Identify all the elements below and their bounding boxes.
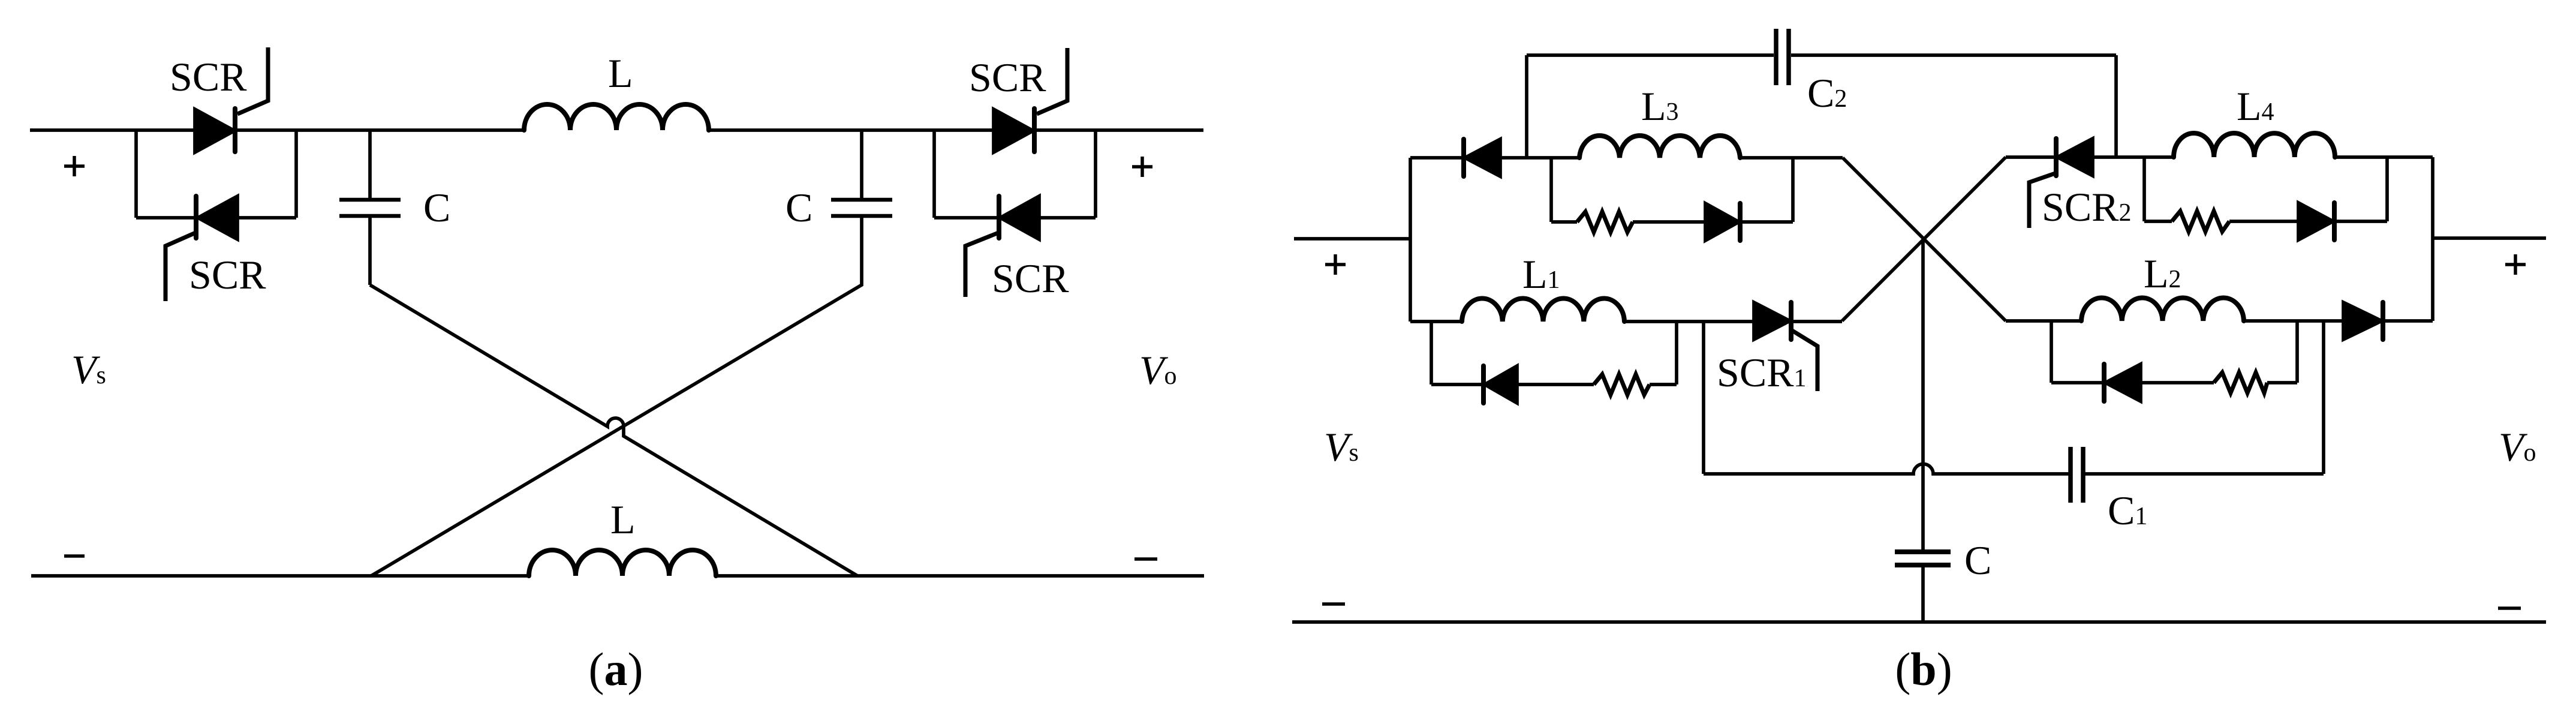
capacitor C right vertical lead top (a) bbox=[860, 130, 863, 200]
wire L1 lower block bottom branch (b) bbox=[1431, 383, 1677, 386]
inductor L1 (b) bbox=[1462, 299, 1624, 322]
SCR bottom-right (a) bbox=[965, 196, 1039, 297]
SCR1 (b) bbox=[1754, 302, 1817, 391]
label minus left (a) bbox=[64, 554, 85, 558]
svg-text:(a): (a) bbox=[589, 643, 643, 695]
label minus right (a) bbox=[1134, 557, 1157, 561]
inductor L bottom (a) bbox=[529, 550, 716, 576]
wire input rail (b) bbox=[1294, 237, 1410, 241]
svg-text:C: C bbox=[423, 185, 450, 230]
svg-text:C: C bbox=[786, 185, 812, 230]
wire L2 branch (b) bbox=[2006, 319, 2433, 323]
wire C1 line left with hop (b) bbox=[1704, 464, 2071, 474]
wire output rail (b) bbox=[2433, 236, 2546, 240]
wire diagonal from bottom-left to right capacitor with hop (a) bbox=[371, 216, 862, 576]
SCR2 pointing left (b) bbox=[2029, 139, 2093, 228]
wire left SCR bridge left vertical (a) bbox=[134, 130, 138, 218]
wire L4 top branch to bus (b) bbox=[2335, 155, 2433, 159]
svg-text:C: C bbox=[1964, 537, 1991, 583]
label plus right (a) bbox=[1132, 157, 1152, 177]
inductor L2 (b) bbox=[2081, 298, 2244, 321]
capacitor C left vertical lead top (a) bbox=[368, 130, 372, 200]
resistor in L3 block (b) bbox=[1577, 212, 1633, 232]
svg-text:SCR: SCR bbox=[992, 256, 1069, 301]
capacitor C right plates (a) bbox=[831, 200, 892, 216]
wire L3 block right vertical (b) bbox=[1791, 158, 1795, 222]
wire L3 top branch to diagonal (b) bbox=[1740, 156, 1843, 160]
inductor L3 (b) bbox=[1579, 136, 1740, 158]
inductor L4 (b) bbox=[2174, 133, 2335, 157]
svg-text:SCR: SCR bbox=[189, 252, 266, 298]
diode in L3 block pointing right (b) bbox=[1705, 203, 1740, 241]
wire bottom rail (b) bbox=[1292, 620, 2546, 624]
diode on L2 branch pointing right (b) bbox=[2343, 302, 2383, 340]
label minus right (b) bbox=[2498, 606, 2521, 610]
wire SCR2 branch (b) bbox=[2006, 155, 2174, 159]
capacitor C left vertical lead bottom (a) bbox=[368, 216, 372, 285]
wire L3 block bottom branch (b) bbox=[1551, 220, 1793, 224]
resistor in L4 block (b) bbox=[2172, 211, 2229, 232]
wire right SCR bridge right vertical (a) bbox=[1094, 130, 1097, 218]
wire L4 block left vertical (b) bbox=[2142, 157, 2146, 221]
wire X center drop vertical (b) bbox=[1921, 239, 1925, 552]
wire top branch (b) bbox=[1410, 156, 1579, 160]
label minus left (b) bbox=[1322, 602, 1345, 606]
wire left SCR bridge bottom branch (a) bbox=[136, 216, 296, 220]
svg-text:SCR1: SCR1 bbox=[1717, 350, 1807, 395]
wire X diagonal lower-left to upper-right (b) bbox=[1842, 157, 2006, 321]
wire L1 branch (b) bbox=[1410, 320, 1842, 323]
capacitor C plates (b) bbox=[1895, 552, 1951, 565]
wire top rail left segment (a) bbox=[30, 128, 524, 132]
wire L4 block right vertical (b) bbox=[2385, 157, 2389, 221]
wire C1 right riser vertical (b) bbox=[2322, 321, 2325, 474]
wire X diagonal upper-left to lower-right (b) bbox=[1843, 158, 2006, 321]
svg-text:SCR: SCR bbox=[170, 54, 247, 100]
wire bottom rail right segment (a) bbox=[716, 574, 1204, 578]
wire right bus vertical (b) bbox=[2431, 157, 2434, 321]
wire L1 lower block right vertical (b) bbox=[1675, 322, 1678, 384]
wire left bus vertical (b) bbox=[1409, 158, 1412, 322]
wire L1 lower block left vertical (b) bbox=[1430, 322, 1433, 384]
svg-text:(b): (b) bbox=[1895, 643, 1952, 695]
wire right SCR bridge bottom branch (a) bbox=[934, 216, 1096, 220]
resistor in L2 lower block (b) bbox=[2214, 372, 2267, 393]
SCR top-left (a) bbox=[195, 47, 268, 152]
wire L2 lower block right vertical (b) bbox=[2295, 321, 2299, 383]
wire L2 lower block left vertical (b) bbox=[2050, 321, 2053, 383]
label plus left (a) bbox=[64, 156, 85, 176]
wire C bottom lead (b) bbox=[1921, 565, 1925, 622]
diode in L1 lower block pointing left (b) bbox=[1483, 366, 1517, 403]
inductor L top (a) bbox=[524, 104, 709, 130]
wire L2 lower block bottom branch (b) bbox=[2051, 381, 2297, 384]
wire C1 line right (b) bbox=[2085, 472, 2324, 476]
SCR top-right (a) bbox=[994, 48, 1067, 152]
wire C2 top line left (b) bbox=[1527, 53, 1774, 57]
wire right SCR bridge left vertical (a) bbox=[932, 130, 936, 218]
wire C2 riser vertical (b) bbox=[1525, 55, 1528, 158]
wire bottom rail left segment (a) bbox=[31, 574, 529, 578]
wire L4 block bottom branch (b) bbox=[2144, 220, 2387, 223]
diode top-left pointing left (b) bbox=[1464, 139, 1500, 176]
svg-text:L: L bbox=[610, 497, 636, 542]
SCR bottom-left (a) bbox=[165, 196, 237, 301]
wire C2 right drop vertical (b) bbox=[2114, 55, 2118, 157]
wire top rail right segment (a) bbox=[709, 128, 1203, 132]
diode in L2 lower block pointing left (b) bbox=[2104, 364, 2141, 401]
wire C2 top line right (b) bbox=[1791, 53, 2116, 57]
wire left SCR bridge right vertical (a) bbox=[294, 130, 298, 218]
wire C1 left drop vertical (b) bbox=[1702, 322, 1705, 474]
svg-text:L: L bbox=[608, 50, 633, 96]
wire diagonal from left capacitor to bottom-right (a) bbox=[370, 285, 857, 576]
label plus right (b) bbox=[2505, 254, 2526, 275]
capacitor C left plates (a) bbox=[339, 200, 401, 216]
capacitor C1 plates (b) bbox=[2071, 447, 2083, 503]
wire L3 block left vertical (b) bbox=[1549, 158, 1553, 222]
resistor in L1 lower block (b) bbox=[1594, 374, 1650, 395]
svg-text:SCR: SCR bbox=[969, 55, 1046, 100]
svg-text:SCR2: SCR2 bbox=[2042, 184, 2132, 230]
label plus left (b) bbox=[1325, 254, 1346, 275]
diode in L4 block pointing right (b) bbox=[2298, 203, 2334, 240]
capacitor C2 plates (b) bbox=[1776, 29, 1789, 85]
